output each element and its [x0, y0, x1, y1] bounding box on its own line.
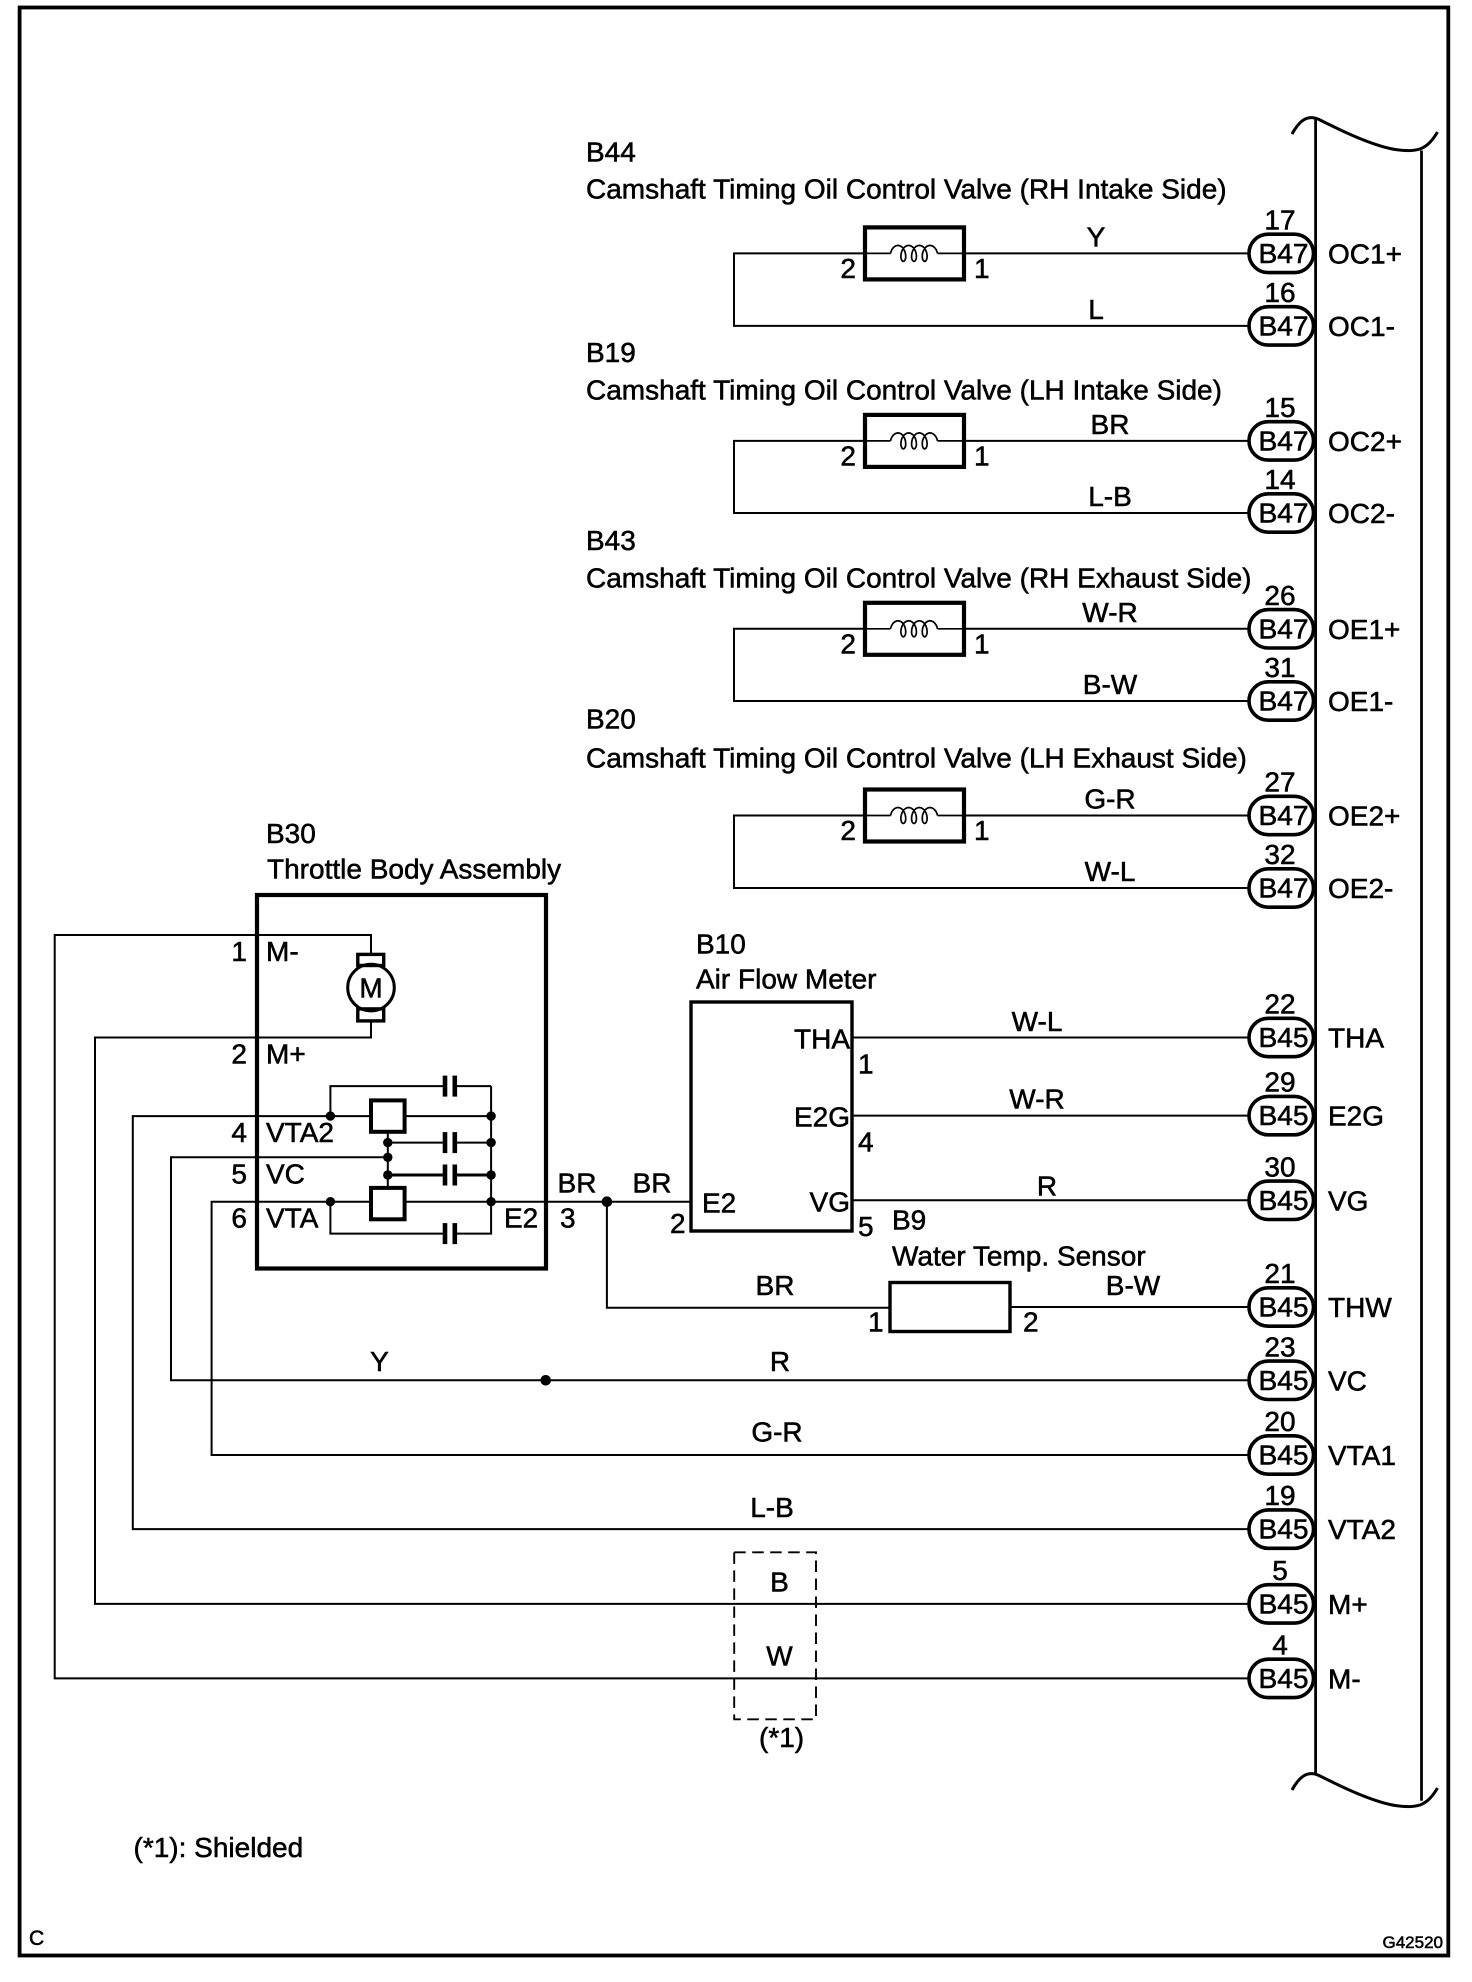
svg-text:17: 17: [1264, 204, 1295, 235]
wire B30 M+ pin2 to B45 5: [95, 1038, 1249, 1604]
svg-text:29: 29: [1264, 1067, 1295, 1098]
svg-text:1: 1: [858, 1049, 874, 1080]
ECM boundary left vertical line: [1314, 118, 1317, 1775]
wire E2 node down to water temp sensor pin1: [607, 1202, 890, 1308]
svg-text:E2: E2: [504, 1203, 538, 1234]
svg-text:VTA1: VTA1: [1328, 1440, 1396, 1471]
svg-text:B-W: B-W: [1083, 669, 1138, 700]
solenoid coil B20: [891, 808, 938, 824]
svg-text:2: 2: [231, 1039, 247, 1070]
coil internal lead wires B20: [867, 815, 891, 817]
junction dot VTA2 right bus: [486, 1111, 495, 1120]
svg-text:32: 32: [1264, 839, 1295, 870]
svg-text:OE1+: OE1+: [1328, 614, 1400, 645]
svg-text:15: 15: [1264, 392, 1295, 423]
svg-text:W-R: W-R: [1009, 1084, 1064, 1115]
svg-text:4: 4: [1272, 1629, 1288, 1660]
svg-text:OC1-: OC1-: [1328, 311, 1395, 342]
svg-text:2: 2: [840, 628, 856, 659]
svg-text:Camshaft Timing Oil Control Va: Camshaft Timing Oil Control Valve (RH In…: [586, 174, 1227, 205]
water temp sensor B9 body box: [890, 1283, 1010, 1332]
svg-text:(*1): (*1): [759, 1722, 804, 1753]
connector B47 pin 26 oval, row OE1+: [1249, 610, 1314, 648]
svg-text:G-R: G-R: [1084, 784, 1135, 815]
svg-text:4: 4: [858, 1127, 874, 1158]
svg-text:B-W: B-W: [1106, 1270, 1161, 1301]
svg-text:BR: BR: [756, 1270, 795, 1301]
svg-text:L-B: L-B: [1088, 481, 1132, 512]
connector B45 pin 4 oval, row M-: [1249, 1659, 1314, 1697]
svg-text:E2G: E2G: [794, 1102, 850, 1133]
svg-text:2: 2: [840, 253, 856, 284]
svg-text:B45: B45: [1259, 1185, 1309, 1216]
capacitor C1 plates: [443, 1076, 448, 1097]
capacitor C4 bottom wire left: [330, 1202, 443, 1234]
svg-text:VTA2: VTA2: [266, 1117, 334, 1148]
connector B47 pin 31 oval, row OE1-: [1249, 682, 1314, 720]
capacitor C1 top wire right: [457, 1085, 491, 1087]
connector B45 pin 21 oval, row THW: [1249, 1288, 1314, 1326]
svg-text:Throttle Body Assembly: Throttle Body Assembly: [267, 854, 561, 885]
wire B19 pin2 left loop down: [734, 441, 1249, 513]
wire motor to B30 pin2 M+: [257, 1021, 371, 1038]
svg-text:VTA: VTA: [266, 1203, 319, 1234]
svg-text:21: 21: [1264, 1258, 1295, 1289]
svg-text:1: 1: [231, 936, 247, 967]
svg-text:2: 2: [840, 440, 856, 471]
svg-text:THW: THW: [1328, 1292, 1392, 1323]
connector B45 pin 20 oval, row VTA1: [1249, 1436, 1314, 1474]
svg-text:OC1+: OC1+: [1328, 238, 1402, 269]
svg-text:M+: M+: [266, 1039, 306, 1070]
svg-text:Y: Y: [1087, 221, 1106, 252]
capacitor C2 wire right: [457, 1142, 491, 1144]
motor M1 bottom brush: [358, 1009, 384, 1021]
wire B20 pin2 left loop down: [734, 816, 1249, 889]
svg-text:27: 27: [1264, 767, 1295, 798]
wire B30 pin6 VTA internal: [257, 1201, 371, 1203]
capacitor C2 plates: [443, 1132, 448, 1153]
svg-text:B47: B47: [1259, 238, 1309, 269]
coil internal lead wires B43: [867, 628, 891, 630]
svg-text:Water Temp. Sensor: Water Temp. Sensor: [892, 1241, 1146, 1272]
svg-text:22: 22: [1264, 989, 1295, 1020]
svg-text:16: 16: [1264, 277, 1295, 308]
svg-text:2: 2: [840, 815, 856, 846]
TPS element resistor square lower: [371, 1188, 405, 1219]
svg-text:B10: B10: [696, 929, 746, 960]
svg-text:B45: B45: [1259, 1663, 1309, 1694]
solenoid valve B43 body box: [865, 603, 964, 655]
capacitor C3 wire right: [457, 1174, 491, 1177]
wire B9 pin2 to B45 21: [1010, 1306, 1249, 1308]
svg-text:W-L: W-L: [1012, 1006, 1063, 1037]
junction dot C2 right bus: [486, 1138, 495, 1147]
svg-text:B45: B45: [1259, 1292, 1309, 1323]
ECM boundary bottom break wave: [1292, 1774, 1438, 1807]
svg-text:B45: B45: [1259, 1589, 1309, 1620]
connector B45 pin 5 oval, row M+: [1249, 1585, 1314, 1623]
wire B30 VTA2 pin4 to B45 19: [133, 1116, 1249, 1529]
ECM boundary right vertical line: [1420, 151, 1423, 1801]
svg-text:B47: B47: [1259, 613, 1309, 644]
svg-text:Y: Y: [370, 1346, 389, 1377]
wire B30 pin1 M- to motor: [257, 935, 371, 954]
wire VTA square to E2 pin3 out: [405, 1201, 691, 1203]
coil internal lead wires B19: [867, 440, 891, 442]
svg-text:B45: B45: [1259, 1100, 1309, 1131]
connector B45 pin 23 oval, row VC: [1249, 1361, 1314, 1399]
wire B44 pin2 left loop down: [734, 253, 1249, 326]
svg-text:1: 1: [868, 1307, 884, 1338]
connector B47 pin 14 oval, row OC2-: [1249, 494, 1314, 532]
svg-text:B45: B45: [1259, 1365, 1309, 1396]
ECM boundary top break wave: [1292, 118, 1438, 151]
svg-text:W: W: [766, 1640, 793, 1671]
shielded wires dashed box: [734, 1552, 816, 1719]
svg-text:M-: M-: [266, 936, 299, 967]
svg-text:VG: VG: [1328, 1185, 1368, 1216]
junction dot VC tap: [383, 1153, 392, 1162]
svg-text:W-L: W-L: [1085, 856, 1136, 887]
svg-text:E2: E2: [702, 1188, 736, 1219]
svg-text:THA: THA: [794, 1024, 850, 1055]
connector B47 pin 17 oval, row OC1+: [1249, 234, 1314, 272]
svg-text:B47: B47: [1259, 800, 1309, 831]
svg-text:R: R: [770, 1346, 790, 1377]
svg-text:Air Flow Meter: Air Flow Meter: [696, 964, 876, 995]
svg-text:B44: B44: [586, 137, 636, 168]
wire B30 VC pin5 to B45 23: [171, 1157, 1249, 1380]
svg-text:31: 31: [1264, 652, 1295, 683]
svg-text:THA: THA: [1328, 1023, 1384, 1054]
svg-text:1: 1: [974, 253, 990, 284]
svg-text:Camshaft Timing Oil Control Va: Camshaft Timing Oil Control Valve (LH Ex…: [586, 743, 1247, 774]
svg-text:OC2-: OC2-: [1328, 498, 1395, 529]
svg-text:20: 20: [1264, 1406, 1295, 1437]
wire squares linking vertical: [387, 1132, 389, 1188]
svg-text:B47: B47: [1259, 426, 1309, 457]
svg-text:E2G: E2G: [1328, 1101, 1384, 1132]
air flow meter B10 outline box: [691, 1002, 852, 1231]
coil internal lead wires B44: [867, 252, 891, 254]
svg-text:2: 2: [670, 1208, 686, 1239]
junction dot E2 node: [602, 1196, 613, 1207]
svg-text:L-B: L-B: [750, 1492, 794, 1523]
wire VTA2 square to right bus: [405, 1115, 492, 1117]
svg-text:19: 19: [1264, 1480, 1295, 1511]
svg-text:L: L: [1088, 294, 1104, 325]
junction dot VTA2 left: [326, 1111, 335, 1120]
connector B45 pin 19 oval, row VTA2: [1249, 1510, 1314, 1548]
svg-text:3: 3: [560, 1203, 576, 1234]
capacitor C1 top wire left: [330, 1086, 443, 1116]
connector B47 pin 27 oval, row OE2+: [1249, 796, 1314, 834]
svg-text:B45: B45: [1259, 1514, 1309, 1545]
svg-text:B43: B43: [586, 525, 636, 556]
wire B10 THA to B45 22: [852, 1037, 1249, 1039]
capacitor C4 bottom wire right: [457, 1086, 491, 1234]
svg-text:(*1): Shielded: (*1): Shielded: [134, 1832, 304, 1863]
svg-text:4: 4: [231, 1117, 247, 1148]
solenoid valve B44 body box: [865, 227, 964, 279]
solenoid coil B19: [891, 433, 938, 449]
svg-text:Camshaft Timing Oil Control Va: Camshaft Timing Oil Control Valve (RH Ex…: [586, 563, 1252, 594]
capacitor C4 plates: [443, 1223, 448, 1244]
wire B20 pin1 to B47 pin 27: [964, 815, 1249, 817]
svg-text:VG: VG: [810, 1187, 850, 1218]
svg-text:OE2-: OE2-: [1328, 873, 1393, 904]
svg-text:OE1-: OE1-: [1328, 686, 1393, 717]
connector B47 pin 16 oval, row OC1-: [1249, 307, 1314, 345]
svg-text:M-: M-: [1328, 1663, 1361, 1694]
svg-text:BR: BR: [558, 1168, 597, 1199]
throttle body B30 outline box: [257, 895, 546, 1269]
svg-text:26: 26: [1264, 580, 1295, 611]
solenoid coil B44: [891, 245, 938, 261]
svg-text:30: 30: [1264, 1151, 1295, 1182]
svg-text:W-R: W-R: [1082, 597, 1137, 628]
svg-text:14: 14: [1264, 464, 1295, 495]
svg-text:5: 5: [1272, 1555, 1288, 1586]
splice dot on VC wire: [540, 1375, 551, 1386]
svg-text:B: B: [770, 1566, 789, 1597]
svg-text:VC: VC: [1328, 1365, 1367, 1396]
svg-text:1: 1: [974, 440, 990, 471]
connector B47 pin 15 oval, row OC2+: [1249, 422, 1314, 460]
connector B45 pin 29 oval, row E2G: [1249, 1096, 1314, 1134]
svg-text:B47: B47: [1259, 686, 1309, 717]
svg-text:OC2+: OC2+: [1328, 426, 1402, 457]
wire B43 pin1 to B47 pin 26: [964, 628, 1249, 630]
capacitor C2 wire left: [388, 1142, 443, 1144]
wire B30 M- pin1 to B45 4: [55, 935, 1249, 1678]
svg-text:5: 5: [231, 1158, 247, 1189]
svg-text:6: 6: [231, 1203, 247, 1234]
svg-text:1: 1: [974, 815, 990, 846]
throttle motor M circle: [348, 964, 395, 1011]
wire B30 pin5 VC internal: [257, 1156, 388, 1158]
svg-text:B20: B20: [586, 704, 636, 735]
svg-text:B30: B30: [266, 818, 316, 849]
svg-text:B47: B47: [1259, 873, 1309, 904]
svg-text:1: 1: [974, 628, 990, 659]
connector B47 pin 32 oval, row OE2-: [1249, 869, 1314, 907]
wire B10 E2G to B45 29: [852, 1115, 1249, 1117]
svg-text:G-R: G-R: [751, 1417, 802, 1448]
svg-text:2: 2: [1023, 1307, 1039, 1338]
junction dot VTA right bus: [486, 1197, 495, 1206]
svg-text:VTA2: VTA2: [1328, 1514, 1396, 1545]
svg-text:BR: BR: [633, 1168, 672, 1199]
junction dot C3 right bus: [486, 1170, 495, 1179]
svg-text:B47: B47: [1259, 311, 1309, 342]
svg-text:BR: BR: [1091, 409, 1130, 440]
capacitor C3 wire left: [388, 1174, 443, 1177]
svg-text:OE2+: OE2+: [1328, 801, 1400, 832]
svg-text:B45: B45: [1259, 1022, 1309, 1053]
junction dot C3 left: [383, 1170, 392, 1179]
svg-text:B47: B47: [1259, 498, 1309, 529]
motor M1 top brush: [358, 954, 384, 965]
svg-text:M+: M+: [1328, 1589, 1368, 1620]
wire B43 pin2 left loop down: [734, 629, 1249, 701]
svg-text:23: 23: [1264, 1331, 1295, 1362]
svg-text:VC: VC: [266, 1158, 305, 1189]
wire B44 pin1 to B47 pin 17: [964, 252, 1249, 254]
svg-text:C: C: [29, 1927, 44, 1950]
TPS element resistor square upper: [371, 1100, 405, 1131]
connector B45 pin 22 oval, row THA: [1249, 1018, 1314, 1056]
svg-text:5: 5: [858, 1211, 874, 1242]
solenoid valve B20 body box: [865, 790, 964, 842]
svg-text:B45: B45: [1259, 1440, 1309, 1471]
junction dot C2 left: [383, 1138, 392, 1147]
svg-text:M: M: [359, 973, 382, 1004]
wire B30 pin4 VTA2 internal: [257, 1115, 371, 1117]
wire B10 VG to B45 30: [852, 1199, 1249, 1201]
wire B19 pin1 to B47 pin 15: [964, 440, 1249, 442]
svg-text:R: R: [1037, 1170, 1057, 1201]
svg-text:G42520: G42520: [1383, 1933, 1444, 1952]
svg-text:Camshaft Timing Oil Control Va: Camshaft Timing Oil Control Valve (LH In…: [586, 375, 1222, 406]
svg-text:B19: B19: [586, 337, 636, 368]
solenoid coil B43: [891, 621, 938, 637]
connector B45 pin 30 oval, row VG: [1249, 1181, 1314, 1219]
wire B30 VTA pin6 to B45 20: [212, 1202, 1249, 1455]
junction dot VTA left: [326, 1197, 335, 1206]
solenoid valve B19 body box: [865, 415, 964, 467]
capacitor C3 plates: [443, 1165, 448, 1186]
svg-text:B9: B9: [892, 1205, 926, 1236]
